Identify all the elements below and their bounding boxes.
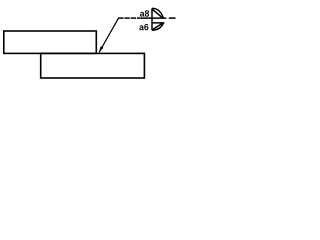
fillet weld symbol above line: convex contour arc	[152, 8, 163, 18]
reference line dash 2	[125, 17, 130, 19]
fillet weld symbol below line: vertical leg	[151, 18, 153, 30]
lower plate rectangle	[41, 53, 145, 78]
fillet weld symbol below line: convex contour arc	[152, 24, 163, 31]
fillet weld symbol below line: hypotenuse	[152, 23, 162, 29]
weld size label a8 (above line)	[140, 12, 145, 17]
upper plate rectangle	[4, 31, 97, 53]
reference line dash 3	[131, 17, 136, 19]
reference line dash 4	[137, 17, 141, 19]
weld size label a6 (below line)	[139, 25, 144, 30]
identification dashed line segment below reference line	[153, 22, 165, 24]
leader arrow line	[99, 18, 118, 52]
arrowhead	[99, 47, 103, 53]
fillet weld symbol above line: hypotenuse	[152, 9, 162, 18]
reference line solid segment under text and symbol	[141, 17, 167, 19]
reference line dash 1	[118, 17, 123, 19]
fillet weld symbol above line: vertical leg	[151, 8, 153, 18]
reference line dash right tail	[169, 17, 176, 19]
